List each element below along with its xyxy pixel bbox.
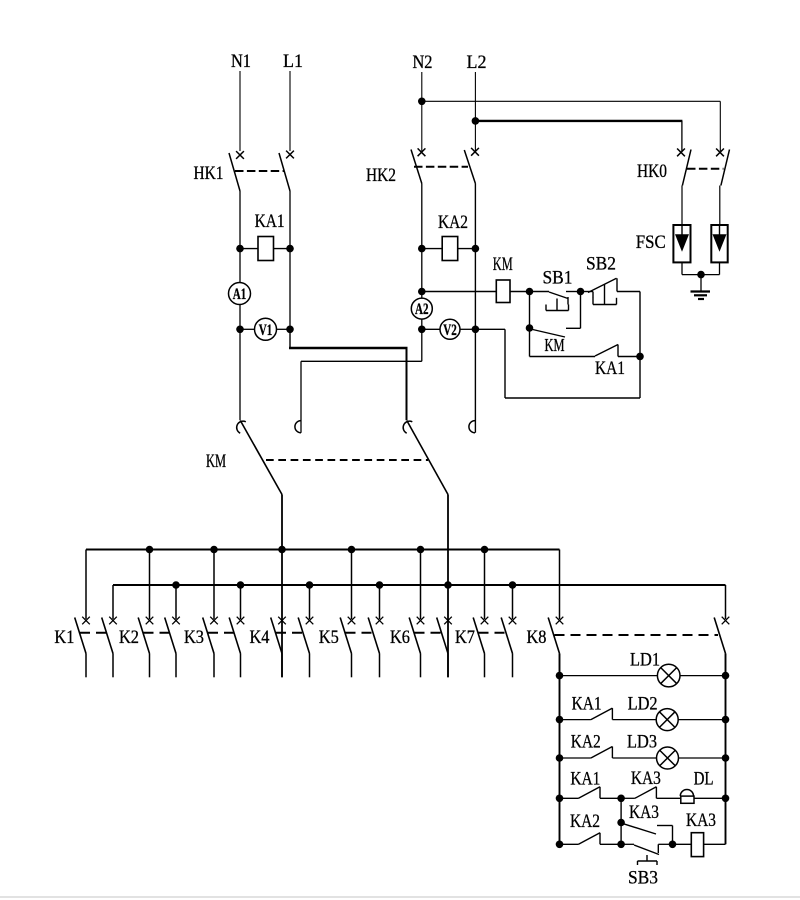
svg-text:K7: K7 <box>455 627 475 648</box>
svg-text:KA3: KA3 <box>629 802 659 823</box>
svg-text:KA2: KA2 <box>571 731 601 752</box>
svg-text:HK1: HK1 <box>194 163 224 184</box>
svg-text:KA2: KA2 <box>570 811 600 832</box>
svg-text:KM: KM <box>545 335 565 355</box>
svg-text:LD3: LD3 <box>627 731 657 752</box>
svg-text:V2: V2 <box>443 322 457 339</box>
svg-text:N2: N2 <box>413 52 433 73</box>
svg-text:A1: A1 <box>233 286 247 303</box>
svg-text:KA1: KA1 <box>255 211 285 232</box>
svg-text:KA3: KA3 <box>686 810 716 831</box>
svg-text:KA1: KA1 <box>595 358 625 379</box>
svg-text:FSC: FSC <box>636 232 666 253</box>
svg-text:K3: K3 <box>184 627 204 648</box>
svg-text:K1: K1 <box>54 627 74 648</box>
svg-text:K2: K2 <box>119 627 139 648</box>
svg-text:K6: K6 <box>390 627 410 648</box>
svg-text:HK0: HK0 <box>637 161 667 182</box>
svg-text:L1: L1 <box>283 51 303 72</box>
svg-text:V1: V1 <box>259 322 273 339</box>
svg-text:KM: KM <box>206 451 226 472</box>
svg-text:LD1: LD1 <box>630 649 660 670</box>
svg-text:KA2: KA2 <box>438 212 468 233</box>
svg-text:DL: DL <box>694 768 714 789</box>
svg-text:K8: K8 <box>527 627 547 648</box>
svg-text:SB2: SB2 <box>586 254 616 275</box>
svg-text:KA1: KA1 <box>572 694 602 715</box>
svg-text:HK2: HK2 <box>366 165 396 186</box>
svg-text:SB3: SB3 <box>628 868 658 889</box>
svg-text:N1: N1 <box>231 51 251 72</box>
svg-text:K5: K5 <box>319 627 339 648</box>
svg-text:K4: K4 <box>250 627 270 648</box>
svg-text:SB1: SB1 <box>543 268 573 289</box>
svg-text:L2: L2 <box>467 52 487 73</box>
svg-text:A2: A2 <box>415 301 429 318</box>
svg-text:KA1: KA1 <box>570 768 600 789</box>
svg-text:LD2: LD2 <box>628 694 658 715</box>
svg-text:KM: KM <box>493 254 513 275</box>
svg-text:KA3: KA3 <box>631 768 661 789</box>
